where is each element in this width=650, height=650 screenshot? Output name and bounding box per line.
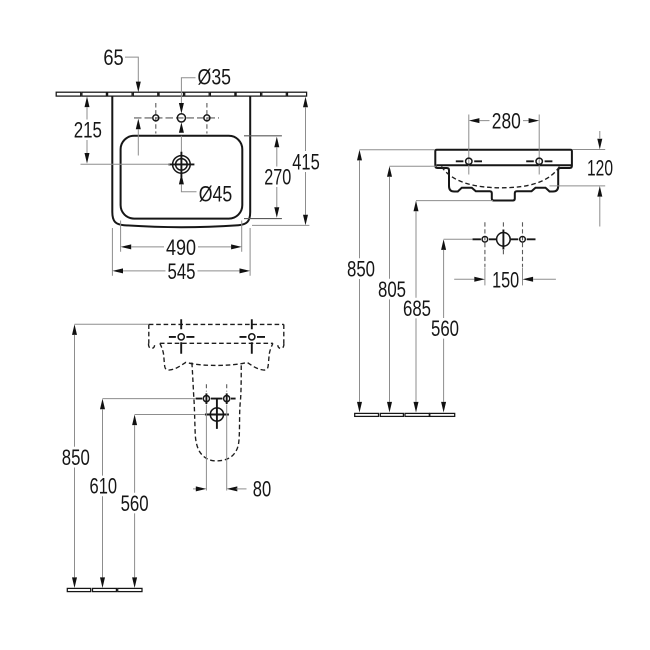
right faucet hole (plan) (204, 103, 210, 134)
svg-text:610: 610 (90, 474, 118, 499)
dimension 120 (rim height) (550, 131, 606, 227)
left faucet hole (plan) (153, 103, 159, 134)
basin inner bowl (plan view) (121, 136, 243, 219)
svg-text:685: 685 (403, 296, 431, 321)
hidden bowl curve (dashed) rear view (442, 167, 560, 188)
svg-text:850: 850 (62, 445, 90, 470)
dimension 545 (basin width) (112, 228, 250, 276)
floor hatch bar rear (355, 413, 455, 416)
dimension 415 (wall to front) (252, 97, 309, 226)
svg-text:270: 270 (264, 165, 291, 190)
dimension 65 (wall to tap holes) (125, 57, 141, 155)
svg-text:850: 850 (347, 256, 375, 281)
drain outlet (plan) (168, 152, 194, 177)
svg-text:65: 65 (103, 45, 123, 70)
basin outer outline (plan view) (112, 96, 250, 227)
left bolt hole rear (456, 115, 482, 175)
svg-text:415: 415 (292, 149, 320, 174)
wall hatch bar (plan view) (56, 92, 306, 96)
dimension 805 rear (387, 166, 436, 412)
svg-text:805: 805 (378, 277, 406, 302)
svg-text:280: 280 (492, 108, 521, 133)
svg-text:545: 545 (168, 259, 196, 284)
dimension 560 front (132, 415, 205, 589)
pedestal supply pipes dashes (206, 384, 226, 391)
dimension 490 (bowl width) (121, 221, 242, 252)
svg-text:490: 490 (166, 235, 196, 260)
dimension 280 (bolt holes) (469, 118, 539, 123)
left supply hole front (196, 393, 236, 404)
middle faucet hole (plan) (177, 114, 185, 122)
basin silhouette rear view (435, 150, 572, 201)
dimension 850 front (72, 324, 149, 588)
svg-text:560: 560 (121, 491, 149, 516)
dimension 215 (wall to drain) (81, 97, 171, 165)
dimension 270 (bowl depth) (244, 136, 282, 219)
svg-text:560: 560 (431, 316, 459, 341)
dimension 850 rear (357, 150, 435, 413)
supply connection group rear (473, 222, 536, 267)
svg-text:215: 215 (74, 117, 102, 142)
svg-text:150: 150 (492, 267, 519, 292)
half pedestal (dashed) (192, 363, 241, 461)
dimension 150 (supply spacing) (454, 268, 556, 286)
basin underside front (dashed) (160, 343, 273, 370)
left mounting hole front (169, 319, 195, 354)
right mounting hole front (240, 319, 266, 354)
svg-text:Ø45: Ø45 (199, 181, 233, 206)
dimension 610 front (100, 399, 196, 588)
dimension Ø45 leader (179, 174, 197, 192)
dimension 560 rear (441, 239, 472, 412)
svg-text:120: 120 (587, 155, 613, 180)
floor hatch bar front (67, 588, 142, 591)
dimension Ø35 leader (179, 78, 196, 152)
dimension 80 (pedestal fixing) (193, 405, 247, 492)
siphon connection front (205, 399, 229, 429)
faucet hole centerline (plan) (134, 117, 219, 119)
right bolt hole rear (526, 115, 552, 175)
rim deck line rear view (437, 164, 572, 166)
svg-text:80: 80 (253, 476, 271, 501)
basin rim band front (dashed) (149, 324, 284, 348)
dimension 685 rear (414, 201, 494, 413)
svg-text:Ø35: Ø35 (198, 65, 232, 90)
